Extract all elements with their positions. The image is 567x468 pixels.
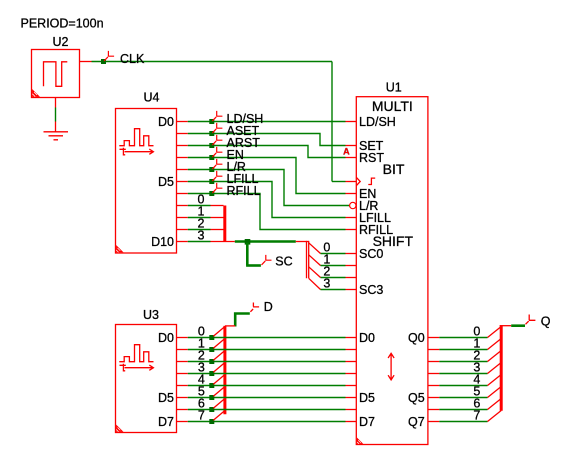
pattern generator U4 time axis glyph xyxy=(120,148,154,155)
pin U4 D1 stub xyxy=(177,133,188,135)
pin U1 Q4 stub xyxy=(428,385,439,387)
svg-text:SC3: SC3 xyxy=(359,283,383,297)
svg-text:CLK: CLK xyxy=(120,52,145,66)
pin U1 LD/SH stub xyxy=(346,121,357,123)
wire SC terminal tap vertical xyxy=(246,243,249,266)
pin U1 clock chevron xyxy=(356,177,360,185)
svg-text:RFILL: RFILL xyxy=(227,184,261,198)
svg-text:D0: D0 xyxy=(158,115,174,129)
pin U4 D7 stub xyxy=(177,205,188,207)
terminal Q marker tail xyxy=(526,321,529,324)
bus entry SC1 xyxy=(309,255,321,266)
wire net D5 xyxy=(188,397,346,399)
svg-text:MULTI: MULTI xyxy=(372,98,413,114)
terminal D marker xyxy=(253,303,259,307)
node D1 junction xyxy=(209,347,214,352)
pattern generator U3 waveform glyph xyxy=(119,345,153,362)
svg-text:Q0: Q0 xyxy=(408,331,425,345)
wire U2 to ground xyxy=(55,108,57,122)
wire CLK net horizontal xyxy=(92,61,333,63)
wire SC1 to U1 xyxy=(321,265,346,267)
pin U3 D3 stub xyxy=(177,373,188,375)
net label ASET marker xyxy=(212,123,222,133)
wire net D6 xyxy=(188,409,346,411)
node D0 junction xyxy=(209,335,214,340)
node CLK junction xyxy=(101,59,106,64)
wire U4 bus row 3 / D10 xyxy=(188,241,211,243)
wire SC bus feed red xyxy=(296,241,309,243)
pin U1 D5 stub xyxy=(346,397,357,399)
net label EN marker xyxy=(212,147,222,157)
bus entry Q7 xyxy=(488,411,502,422)
wire net Q5 xyxy=(439,397,487,399)
net label L/R marker xyxy=(212,159,222,169)
wire CLK net vertical xyxy=(331,62,333,182)
wire U4 bus row 2 xyxy=(188,229,211,231)
shift register U1 body xyxy=(356,97,428,445)
wire net Q7 xyxy=(439,421,487,423)
pin U3 D0 stub xyxy=(177,337,188,339)
svg-text:U1: U1 xyxy=(386,81,402,95)
svg-text:RFILL: RFILL xyxy=(359,223,393,237)
svg-text:3: 3 xyxy=(198,229,205,243)
pin U3 D2 stub xyxy=(177,361,188,363)
bus entry SC3 xyxy=(309,278,321,289)
svg-text:PERIOD=100n: PERIOD=100n xyxy=(21,17,104,31)
svg-text:D0: D0 xyxy=(158,331,174,345)
node D5 junction xyxy=(209,395,214,400)
wire net D0 xyxy=(188,337,346,339)
clock generator U2 waveform glyph xyxy=(44,62,68,87)
svg-text:Q5: Q5 xyxy=(408,391,425,405)
pin U1 Q0 stub xyxy=(428,337,439,339)
svg-text:RST: RST xyxy=(359,151,384,165)
ground xyxy=(44,132,69,140)
pin U1 D3 stub xyxy=(346,373,357,375)
wire net Q4 xyxy=(439,385,487,387)
pin U4 D3 stub xyxy=(177,157,188,159)
wire SC terminal tap horizontal xyxy=(246,264,261,267)
svg-text:Q: Q xyxy=(541,315,551,329)
wire net Q3 xyxy=(439,373,487,375)
node D4 junction xyxy=(209,383,214,388)
ground pin stub xyxy=(55,122,57,132)
node ARST junction xyxy=(209,143,214,148)
svg-text:D0: D0 xyxy=(359,331,375,345)
pin U1 SC1 stub xyxy=(346,265,357,267)
pin U4 D9 stub xyxy=(177,229,188,231)
node D3 junction xyxy=(209,371,214,376)
wire CLK into U1 clock pin xyxy=(332,181,346,183)
svg-text:BIT: BIT xyxy=(383,161,405,177)
pin U2 ground xyxy=(55,98,57,108)
svg-text:D5: D5 xyxy=(158,391,174,405)
pin U4 D8 stub xyxy=(177,217,188,219)
wire net ARST xyxy=(188,146,346,158)
node LD/SH junction xyxy=(209,119,214,124)
node SC junction xyxy=(245,239,251,245)
pin U3 D7 stub xyxy=(177,421,188,423)
wire net D1 xyxy=(188,349,346,351)
pin U1 RST stub xyxy=(346,157,357,159)
svg-text:Q7: Q7 xyxy=(408,415,425,429)
bus entry D6 xyxy=(213,399,225,409)
pin U1 D4 stub xyxy=(346,385,357,387)
bus SC vertical double line xyxy=(307,241,309,278)
pin U1 SC2 stub xyxy=(346,277,357,279)
svg-text:SC0: SC0 xyxy=(359,247,383,261)
bus entry D1 xyxy=(213,339,225,349)
pin U4 D5 stub xyxy=(177,181,188,183)
svg-text:7: 7 xyxy=(473,409,480,423)
pin U4 D2 stub xyxy=(177,145,188,147)
bus entry SC2 xyxy=(309,267,321,278)
pin U1 D0 stub xyxy=(346,337,357,339)
net label LFILL marker xyxy=(212,171,222,181)
bus Q vertical bar xyxy=(500,325,503,411)
node L/R junction xyxy=(209,167,214,172)
wire SC0 to U1 xyxy=(321,253,346,255)
terminal CLK marker xyxy=(104,51,114,61)
pin U1 L/R inversion bubble xyxy=(350,202,356,208)
net label LD/SH marker xyxy=(212,111,222,121)
svg-text:D10: D10 xyxy=(151,235,174,249)
wire net Q2 xyxy=(439,361,487,363)
svg-text:U4: U4 xyxy=(144,91,160,105)
terminal D thick wire xyxy=(234,314,250,327)
bus entry Q0 xyxy=(488,327,502,338)
clock generator U2 corner hatch xyxy=(32,89,40,97)
bus entry D4 xyxy=(213,375,225,385)
bus entry D7 xyxy=(213,411,225,421)
pattern generator U4 body xyxy=(116,109,177,254)
pin U1 Q3 stub xyxy=(428,373,439,375)
wire net LFILL xyxy=(188,182,346,218)
node LFILL junction xyxy=(209,179,214,184)
pin U3 D4 stub xyxy=(177,385,188,387)
bus entry Q1 xyxy=(488,339,502,350)
bus D vertical bar xyxy=(223,326,226,414)
bus Q feed red top xyxy=(500,325,512,327)
net label RFILL marker xyxy=(212,183,222,193)
pattern generator U3 time axis glyph xyxy=(120,364,154,371)
pin U1 Q6 stub xyxy=(428,409,439,411)
pin U1 Q1 stub xyxy=(428,349,439,351)
node RFILL junction xyxy=(209,191,214,196)
node EN junction xyxy=(209,155,214,160)
terminal Q thick wire xyxy=(511,324,525,327)
wire SC3 to U1 xyxy=(321,289,346,291)
node ASET junction xyxy=(209,131,214,136)
svg-text:D: D xyxy=(264,300,273,314)
pin U3 D6 stub xyxy=(177,409,188,411)
svg-text:7: 7 xyxy=(198,409,205,423)
wire net L/R xyxy=(188,170,349,206)
bus entry D5 xyxy=(213,387,225,397)
pin U1 Q5 stub xyxy=(428,397,439,399)
pin U1 clock stub xyxy=(346,181,357,183)
bus entry SC0 xyxy=(309,243,321,254)
wire net D4 xyxy=(188,385,346,387)
pattern generator U3 corner hatch xyxy=(116,425,123,432)
bus entry Q5 xyxy=(488,387,502,398)
wire net RFILL xyxy=(188,194,346,230)
wire SC2 to U1 xyxy=(321,277,346,279)
wire net D7 xyxy=(188,421,346,423)
pattern generator U4 waveform glyph xyxy=(119,129,153,146)
svg-text:SC: SC xyxy=(275,255,292,269)
pattern generator U3 body xyxy=(116,325,177,433)
pin U1 EN stub xyxy=(346,193,357,195)
node D2 junction xyxy=(209,359,214,364)
pin U1 D7 stub xyxy=(346,421,357,423)
pin U1 D2 stub xyxy=(346,361,357,363)
wire net Q0 xyxy=(439,337,487,339)
bus entry Q6 xyxy=(488,399,502,410)
node D7 junction xyxy=(209,419,214,424)
wire net Q1 xyxy=(439,349,487,351)
bus entry D2 xyxy=(213,351,225,361)
pin U3 D5 stub xyxy=(177,397,188,399)
pin U4 D6 stub xyxy=(177,193,188,195)
bus entry D3 xyxy=(213,363,225,373)
terminal D marker tail xyxy=(250,309,253,312)
bus entry Q3 xyxy=(488,363,502,374)
pattern generator U4 corner hatch xyxy=(116,245,123,252)
wire net D2 xyxy=(188,361,346,363)
net label ARST marker xyxy=(212,135,222,145)
svg-text:LD/SH: LD/SH xyxy=(359,115,396,129)
shift register U1 up-down arrow glyph xyxy=(388,353,394,380)
svg-text:D5: D5 xyxy=(359,391,375,405)
pin U1 RFILL stub xyxy=(346,229,357,231)
svg-text:D7: D7 xyxy=(359,415,375,429)
terminal SC marker xyxy=(262,255,272,265)
pin U1 D6 stub xyxy=(346,409,357,411)
bus U4 outputs vertical bar xyxy=(223,206,226,242)
pin U4 D0 stub xyxy=(177,121,188,123)
node D6 junction xyxy=(209,407,214,412)
terminal Q marker xyxy=(529,315,536,321)
pin U3 D1 stub xyxy=(177,349,188,351)
pin U1 SC0 stub xyxy=(346,253,357,255)
bus D feed red top xyxy=(225,325,235,327)
pin U2 output xyxy=(80,61,92,63)
pin U1 D1 stub xyxy=(346,349,357,351)
shift register U1 corner hatch xyxy=(357,438,363,444)
svg-text:A: A xyxy=(343,146,350,156)
pin U4 D4 stub xyxy=(177,169,188,171)
clock generator U2 body xyxy=(32,50,80,98)
wire net Q6 xyxy=(439,409,487,411)
svg-text:D5: D5 xyxy=(158,175,174,189)
wire net ASET xyxy=(188,134,346,146)
bus entry Q4 xyxy=(488,375,502,386)
wire U4 bus row 1 xyxy=(188,217,211,219)
bus entry Q2 xyxy=(488,351,502,362)
pin U1 clock edge glyph xyxy=(368,178,375,184)
svg-text:D7: D7 xyxy=(158,415,174,429)
wire net D3 xyxy=(188,373,346,375)
svg-text:U2: U2 xyxy=(53,35,69,49)
pin U4 D10 stub xyxy=(177,241,188,243)
pin U1 LFILL stub xyxy=(346,217,357,219)
pin U1 SET stub xyxy=(346,145,357,147)
bus entry D0 xyxy=(213,327,225,337)
pin U1 Q7 stub xyxy=(428,421,439,423)
wire net SC thick horizontal xyxy=(235,240,296,243)
pin U1 SC3 stub xyxy=(346,289,357,291)
wire U4 bus row 0 xyxy=(188,205,211,207)
wire net EN xyxy=(188,158,346,194)
svg-text:U3: U3 xyxy=(143,308,159,322)
pin U1 Q2 stub xyxy=(428,361,439,363)
svg-text:3: 3 xyxy=(323,277,330,291)
wire net LD/SH xyxy=(188,121,346,123)
